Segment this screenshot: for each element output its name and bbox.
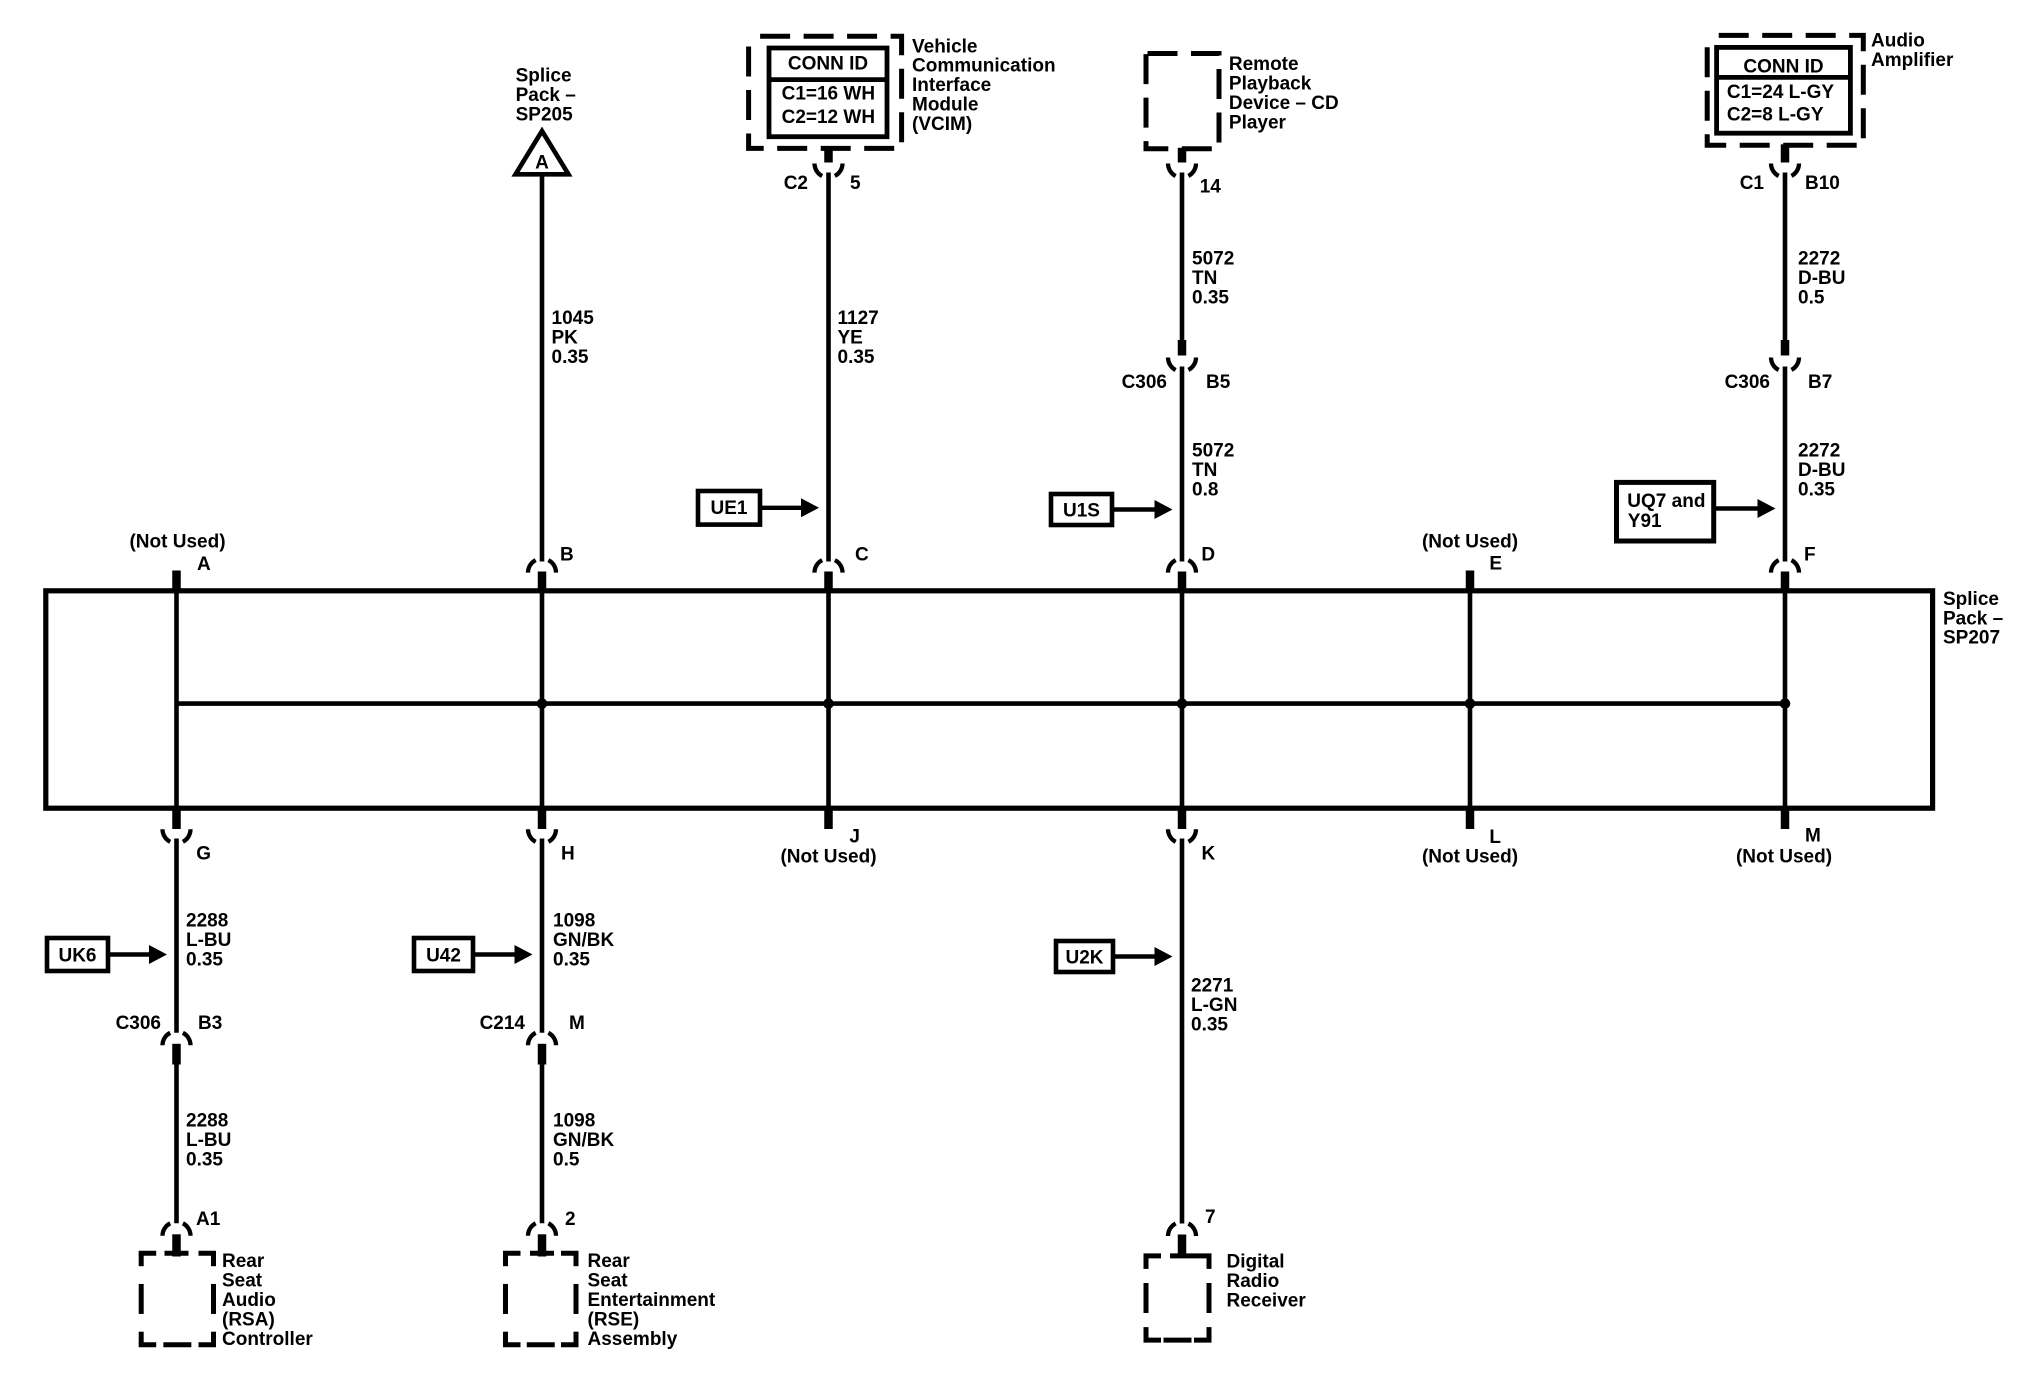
- svg-text:YE: YE: [838, 328, 863, 349]
- connector pin H: [538, 806, 547, 829]
- wire 2272 D-BU lower: [1783, 367, 1788, 562]
- svg-text:L-GN: L-GN: [1191, 995, 1237, 1016]
- svg-text:C306: C306: [1725, 372, 1770, 393]
- svg-text:B7: B7: [1808, 372, 1832, 393]
- svg-text:UK6: UK6: [58, 945, 96, 966]
- svg-text:Communication: Communication: [912, 56, 1056, 77]
- svg-text:Audio: Audio: [222, 1290, 276, 1311]
- svg-text:Receiver: Receiver: [1227, 1291, 1307, 1312]
- svg-text:Entertainment: Entertainment: [588, 1290, 716, 1311]
- wire 1098 GN/BK lower: [540, 1065, 545, 1224]
- connector pin G: [172, 806, 181, 829]
- svg-text:B3: B3: [198, 1013, 222, 1034]
- arrow UE1: [760, 506, 807, 510]
- Digital Radio Receiver box: [1144, 1253, 1162, 1258]
- svg-text:F: F: [1804, 544, 1816, 565]
- svg-text:Seat: Seat: [222, 1271, 263, 1292]
- svg-text:B10: B10: [1805, 173, 1840, 194]
- inline connector C306 B5: [1178, 340, 1187, 356]
- svg-text:Rear: Rear: [588, 1251, 631, 1272]
- svg-text:0.35: 0.35: [186, 1150, 223, 1171]
- svg-text:E: E: [1489, 553, 1502, 574]
- svg-text:0.35: 0.35: [1191, 1015, 1228, 1036]
- wire 2288 L-BU upper: [174, 839, 179, 1033]
- svg-text:C2=8 L-GY: C2=8 L-GY: [1727, 104, 1824, 125]
- svg-text:0.35: 0.35: [838, 347, 875, 368]
- connector pin D: [1168, 559, 1196, 573]
- svg-text:2288: 2288: [186, 911, 228, 932]
- wire 2272 D-BU upper: [1783, 173, 1788, 341]
- svg-text:Assembly: Assembly: [588, 1329, 678, 1350]
- svg-text:0.35: 0.35: [1798, 480, 1835, 501]
- connector pin K: [1178, 806, 1187, 829]
- svg-text:0.35: 0.35: [552, 347, 589, 368]
- junction dot F: [1780, 698, 1791, 709]
- svg-text:TN: TN: [1192, 268, 1217, 289]
- svg-text:5072: 5072: [1192, 441, 1234, 462]
- svg-text:L-BU: L-BU: [186, 1130, 231, 1151]
- svg-text:B: B: [560, 544, 574, 565]
- svg-text:UE1: UE1: [711, 498, 748, 519]
- svg-text:Splice: Splice: [1943, 589, 1999, 610]
- svg-text:TN: TN: [1192, 460, 1217, 481]
- svg-text:A: A: [197, 554, 211, 575]
- svg-text:D: D: [1201, 544, 1215, 565]
- svg-text:2272: 2272: [1798, 441, 1840, 462]
- svg-text:(Not Used): (Not Used): [1422, 847, 1518, 868]
- stub pin A: [172, 571, 181, 593]
- svg-text:Device – CD: Device – CD: [1229, 93, 1339, 114]
- Audio Amplifier CONN ID table: [1717, 47, 1851, 133]
- connector pin B: [528, 559, 556, 573]
- option code U2K: [1056, 941, 1113, 972]
- connector pin F: [1771, 559, 1799, 573]
- svg-text:C214: C214: [480, 1013, 526, 1034]
- wire 5072 TN upper: [1180, 173, 1185, 341]
- junction dot B: [537, 698, 548, 709]
- svg-text:Pack –: Pack –: [516, 85, 576, 106]
- connector pin A1: [163, 1222, 191, 1236]
- svg-text:U1S: U1S: [1063, 500, 1100, 521]
- svg-text:2288: 2288: [186, 1111, 228, 1132]
- inline connector C306 B7: [1781, 340, 1790, 356]
- svg-text:Playback: Playback: [1229, 74, 1312, 95]
- Audio Amplifier component box: [1707, 35, 1863, 145]
- svg-text:C2: C2: [784, 173, 808, 194]
- svg-text:C306: C306: [116, 1013, 161, 1034]
- svg-text:GN/BK: GN/BK: [553, 930, 615, 951]
- wire 1127 YE: [826, 173, 831, 562]
- AA connector pin C1-B10: [1781, 144, 1790, 162]
- wire 5072 TN lower: [1180, 367, 1185, 562]
- wire 2288 L-BU lower: [174, 1065, 179, 1224]
- svg-text:UQ7 and: UQ7 and: [1627, 491, 1705, 512]
- svg-text:Controller: Controller: [222, 1329, 313, 1350]
- svg-text:Radio: Radio: [1227, 1271, 1280, 1292]
- svg-text:0.8: 0.8: [1192, 480, 1218, 501]
- svg-text:A1: A1: [196, 1209, 221, 1230]
- svg-text:14: 14: [1200, 176, 1222, 197]
- svg-text:2272: 2272: [1798, 249, 1840, 270]
- arrow UQ7: [1714, 506, 1764, 510]
- splice internal wire C: [826, 590, 831, 808]
- svg-text:1045: 1045: [552, 308, 595, 329]
- svg-text:SP205: SP205: [516, 105, 573, 126]
- svg-text:Pack –: Pack –: [1943, 608, 2003, 629]
- svg-text:Module: Module: [912, 95, 979, 116]
- svg-text:L-BU: L-BU: [186, 930, 231, 951]
- svg-text:PK: PK: [552, 328, 579, 349]
- svg-text:1098: 1098: [553, 1111, 595, 1132]
- svg-text:D-BU: D-BU: [1798, 268, 1846, 289]
- connector pin C: [815, 559, 843, 573]
- svg-text:0.35: 0.35: [1192, 288, 1229, 309]
- svg-text:Vehicle: Vehicle: [912, 36, 978, 57]
- junction dot C: [823, 698, 834, 709]
- svg-text:0.5: 0.5: [1798, 288, 1825, 309]
- svg-text:Seat: Seat: [588, 1271, 629, 1292]
- connector pin 7: [1168, 1222, 1196, 1236]
- Remote Playback Device component box: [1146, 54, 1219, 149]
- svg-text:C2=12 WH: C2=12 WH: [782, 107, 875, 128]
- svg-text:5072: 5072: [1192, 249, 1234, 270]
- svg-text:5: 5: [850, 173, 861, 194]
- splice internal wire F: [1783, 590, 1788, 808]
- stub pin E: [1466, 571, 1475, 593]
- svg-text:(VCIM): (VCIM): [912, 114, 972, 135]
- splice internal wire A: [174, 590, 179, 808]
- arrow U1S: [1112, 507, 1161, 511]
- svg-text:Interface: Interface: [912, 75, 991, 96]
- option code UQ7 and Y91: [1617, 482, 1714, 541]
- splice symbol A (triangle): [516, 131, 569, 174]
- svg-text:C1: C1: [1740, 173, 1765, 194]
- svg-text:0.35: 0.35: [186, 950, 223, 971]
- svg-text:(RSE): (RSE): [588, 1309, 640, 1330]
- svg-text:C1=24 L-GY: C1=24 L-GY: [1727, 82, 1835, 103]
- wire 1045 PK: [540, 177, 545, 562]
- splice internal wire E: [1468, 590, 1473, 808]
- arrow U42: [473, 952, 521, 956]
- Rear Seat Audio Controller box: [139, 1251, 157, 1256]
- svg-text:C306: C306: [1122, 372, 1167, 393]
- svg-text:0.5: 0.5: [553, 1150, 580, 1171]
- stub pin M: [1781, 806, 1790, 829]
- svg-text:(RSA): (RSA): [222, 1309, 275, 1330]
- inline connector C306 B3: [163, 1031, 191, 1045]
- svg-text:CONN ID: CONN ID: [788, 54, 868, 75]
- Rear Seat Entertainment box: [503, 1251, 521, 1256]
- svg-text:(Not Used): (Not Used): [1422, 532, 1518, 553]
- svg-text:C: C: [855, 544, 869, 565]
- arrow U2K: [1113, 954, 1161, 958]
- svg-text:M: M: [569, 1013, 585, 1034]
- svg-text:U2K: U2K: [1065, 947, 1103, 968]
- svg-text:1127: 1127: [838, 308, 879, 329]
- svg-text:2271: 2271: [1191, 976, 1234, 997]
- option code UE1: [698, 491, 760, 525]
- splice internal wire B: [540, 590, 545, 808]
- svg-text:SP207: SP207: [1943, 628, 2000, 649]
- svg-text:B5: B5: [1206, 372, 1231, 393]
- svg-text:A: A: [535, 152, 549, 173]
- svg-text:K: K: [1202, 844, 1216, 865]
- junction dot D: [1177, 698, 1188, 709]
- VCIM CONN ID table: [769, 48, 887, 137]
- svg-text:(Not Used): (Not Used): [780, 847, 876, 868]
- option code U1S: [1051, 494, 1112, 525]
- splice pack SP207 box: [46, 591, 1933, 808]
- stub pin L: [1466, 806, 1475, 829]
- svg-text:(Not Used): (Not Used): [1736, 847, 1832, 868]
- junction dot E: [1465, 698, 1476, 709]
- wire 2271 L-GN: [1180, 839, 1185, 1224]
- svg-text:U42: U42: [426, 945, 461, 966]
- svg-text:Y91: Y91: [1628, 511, 1662, 532]
- svg-text:CONN ID: CONN ID: [1743, 56, 1823, 77]
- svg-text:Amplifier: Amplifier: [1871, 50, 1954, 71]
- RPD connector pin 14: [1178, 148, 1187, 163]
- svg-text:J: J: [849, 827, 860, 848]
- svg-text:2: 2: [565, 1209, 576, 1230]
- svg-text:Audio: Audio: [1871, 31, 1925, 52]
- stub pin J: [824, 806, 833, 829]
- svg-text:Splice: Splice: [516, 66, 572, 87]
- wire 1098 GN/BK upper: [540, 839, 545, 1033]
- svg-text:H: H: [561, 844, 575, 865]
- option code UK6: [47, 938, 108, 971]
- svg-text:Remote: Remote: [1229, 54, 1299, 75]
- svg-text:(Not Used): (Not Used): [129, 532, 225, 553]
- connector pin 2: [528, 1222, 556, 1236]
- svg-text:Player: Player: [1229, 112, 1287, 133]
- svg-text:GN/BK: GN/BK: [553, 1130, 615, 1151]
- option code U42: [414, 938, 473, 971]
- svg-text:D-BU: D-BU: [1798, 460, 1846, 481]
- svg-text:Rear: Rear: [222, 1251, 265, 1272]
- splice bus wire: [177, 701, 1786, 706]
- svg-text:7: 7: [1205, 1207, 1216, 1228]
- arrow UK6: [108, 952, 155, 956]
- svg-text:0.35: 0.35: [553, 950, 590, 971]
- splice internal wire D: [1180, 590, 1185, 808]
- svg-text:L: L: [1489, 827, 1501, 848]
- svg-text:M: M: [1805, 826, 1821, 847]
- inline connector C214 M: [528, 1031, 556, 1045]
- svg-text:C1=16 WH: C1=16 WH: [782, 83, 875, 104]
- svg-text:Digital: Digital: [1227, 1252, 1285, 1273]
- VCIM connector pin C2-5: [824, 147, 833, 162]
- svg-text:G: G: [196, 844, 211, 865]
- svg-text:1098: 1098: [553, 911, 595, 932]
- VCIM component box: [749, 36, 902, 148]
